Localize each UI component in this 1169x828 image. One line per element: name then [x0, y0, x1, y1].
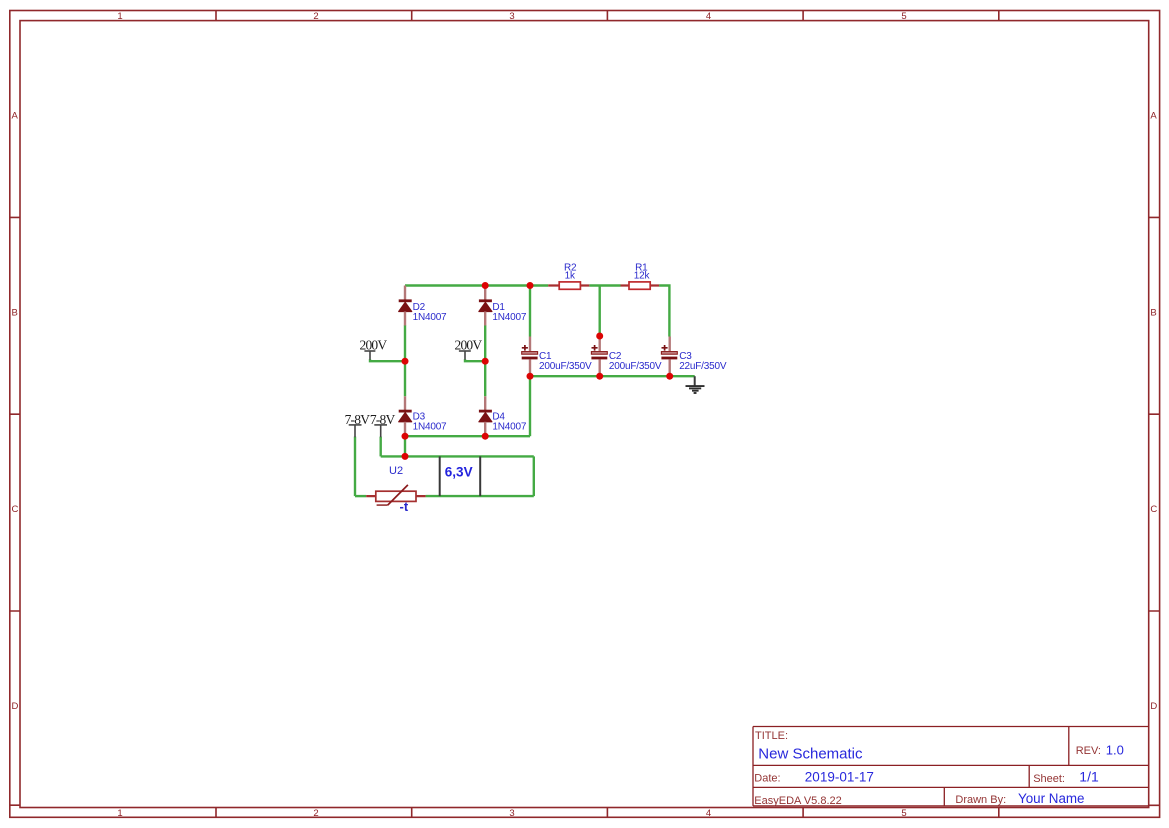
wire R1 to C3 branch — [659, 286, 669, 337]
svg-text:5: 5 — [901, 11, 906, 22]
junction bridge bottom D4 — [482, 433, 489, 440]
capacitor C3 — [661, 286, 726, 377]
svg-text:200V: 200V — [455, 337, 483, 352]
frame row labels left — [12, 111, 19, 712]
capacitor C1 — [522, 337, 592, 377]
net flag 200V right — [455, 337, 483, 359]
svg-text:Sheet:: Sheet: — [1033, 773, 1065, 785]
svg-text:B: B — [12, 307, 18, 318]
svg-text:6,3V: 6,3V — [445, 464, 473, 479]
svg-text:TITLE:: TITLE: — [755, 730, 788, 742]
resistor R2 — [548, 262, 589, 289]
junction top rail at D1 — [482, 282, 489, 289]
net flag 200V left — [360, 337, 388, 359]
svg-text:4: 4 — [706, 11, 711, 22]
wire bottom rail left — [355, 495, 366, 497]
svg-text:REV:: REV: — [1076, 745, 1101, 757]
wire U2 top edge — [381, 455, 534, 457]
svg-text:C: C — [12, 504, 19, 515]
svg-text:1N4007: 1N4007 — [492, 422, 526, 433]
svg-text:1N4007: 1N4007 — [413, 422, 447, 433]
wire net 200V right — [465, 359, 485, 361]
wire top rail — [405, 284, 548, 286]
junction ground rail C1 — [527, 373, 534, 380]
junction bridge bottom D3 — [402, 433, 409, 440]
junction 200V left — [402, 358, 409, 365]
svg-text:D: D — [12, 701, 19, 712]
svg-text:3: 3 — [509, 808, 514, 819]
svg-text:200V: 200V — [360, 337, 388, 352]
ground — [686, 376, 705, 393]
junction ground rail C2 — [596, 373, 603, 380]
net flag 7-8V second — [370, 412, 396, 437]
diode D2 — [399, 286, 447, 326]
svg-text:1.0: 1.0 — [1106, 742, 1124, 757]
svg-text:A: A — [1150, 111, 1157, 122]
wire C1 to bridge bottom — [529, 376, 531, 436]
junction 200V right — [482, 358, 489, 365]
junction top rail at C1 — [527, 282, 534, 289]
wire C1 branch top — [529, 286, 531, 337]
svg-text:1k: 1k — [565, 271, 576, 282]
svg-text:Your Name: Your Name — [1018, 791, 1085, 806]
transformer U2 secondary pins — [440, 456, 481, 496]
svg-text:A: A — [12, 111, 19, 122]
wire 7-8V second flag down — [380, 437, 382, 457]
junction ground rail C3 — [666, 373, 673, 380]
svg-text:Drawn By:: Drawn By: — [955, 794, 1006, 806]
svg-text:4: 4 — [706, 808, 711, 819]
transformer U2 thermistor primary — [366, 485, 425, 514]
net flag 7-8V first — [345, 412, 371, 437]
svg-text:2: 2 — [313, 808, 318, 819]
wire left bridge vertical — [404, 325, 406, 396]
diode D4 — [479, 396, 527, 436]
svg-text:1N4007: 1N4007 — [492, 312, 526, 323]
svg-text:200uF/350V: 200uF/350V — [539, 361, 592, 372]
svg-text:200uF/350V: 200uF/350V — [609, 361, 662, 372]
resistor R1 — [621, 262, 660, 289]
wire 7-8V first flag down — [354, 437, 356, 497]
svg-text:U2: U2 — [389, 465, 403, 477]
wire between R2 and R1 — [589, 284, 620, 286]
wire D3 branch down — [404, 436, 406, 456]
svg-text:2019-01-17: 2019-01-17 — [805, 770, 874, 785]
junction U2 top edge — [402, 453, 409, 460]
svg-text:-t: -t — [400, 499, 409, 514]
frame column labels bottom — [117, 808, 906, 819]
wire bottom rail right — [426, 495, 534, 497]
svg-text:New Schematic: New Schematic — [758, 745, 863, 762]
svg-text:C: C — [1150, 504, 1157, 515]
diode D1 — [479, 286, 527, 326]
diode D3 — [399, 396, 447, 436]
svg-text:5: 5 — [901, 808, 906, 819]
svg-text:B: B — [1150, 307, 1156, 318]
svg-text:D: D — [1150, 701, 1157, 712]
frame row labels right — [1150, 111, 1157, 712]
wire bridge bottom rail — [405, 435, 530, 437]
svg-text:1N4007: 1N4007 — [413, 312, 447, 323]
wire right bridge vertical — [484, 325, 486, 396]
svg-text:1: 1 — [117, 808, 122, 819]
svg-text:22uF/350V: 22uF/350V — [679, 361, 727, 372]
svg-text:1: 1 — [117, 11, 122, 22]
title block — [753, 727, 1149, 808]
svg-text:2: 2 — [313, 11, 318, 22]
svg-text:Date:: Date: — [754, 773, 780, 785]
svg-text:3: 3 — [509, 11, 514, 22]
svg-text:12k: 12k — [634, 271, 651, 282]
wire net 200V left — [370, 359, 405, 361]
wire ground rail — [530, 375, 695, 377]
wire C2 branch — [599, 286, 601, 337]
frame column labels top — [117, 11, 906, 22]
svg-text:1/1: 1/1 — [1079, 769, 1099, 785]
capacitor C2 — [591, 336, 662, 376]
svg-text:EasyEDA V5.8.22: EasyEDA V5.8.22 — [754, 795, 841, 807]
junction C2 pin top — [596, 333, 603, 340]
junction dots — [402, 282, 674, 460]
wire U2 right edge — [533, 456, 535, 496]
